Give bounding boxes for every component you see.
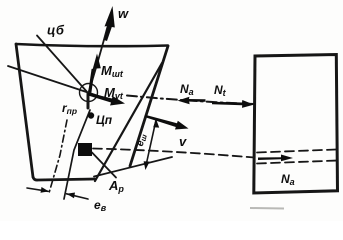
svg-text:Цп: Цп bbox=[96, 113, 113, 127]
svg-text:w: w bbox=[118, 6, 129, 21]
svg-text:цб: цб bbox=[47, 23, 65, 38]
svg-text:v: v bbox=[179, 134, 187, 149]
